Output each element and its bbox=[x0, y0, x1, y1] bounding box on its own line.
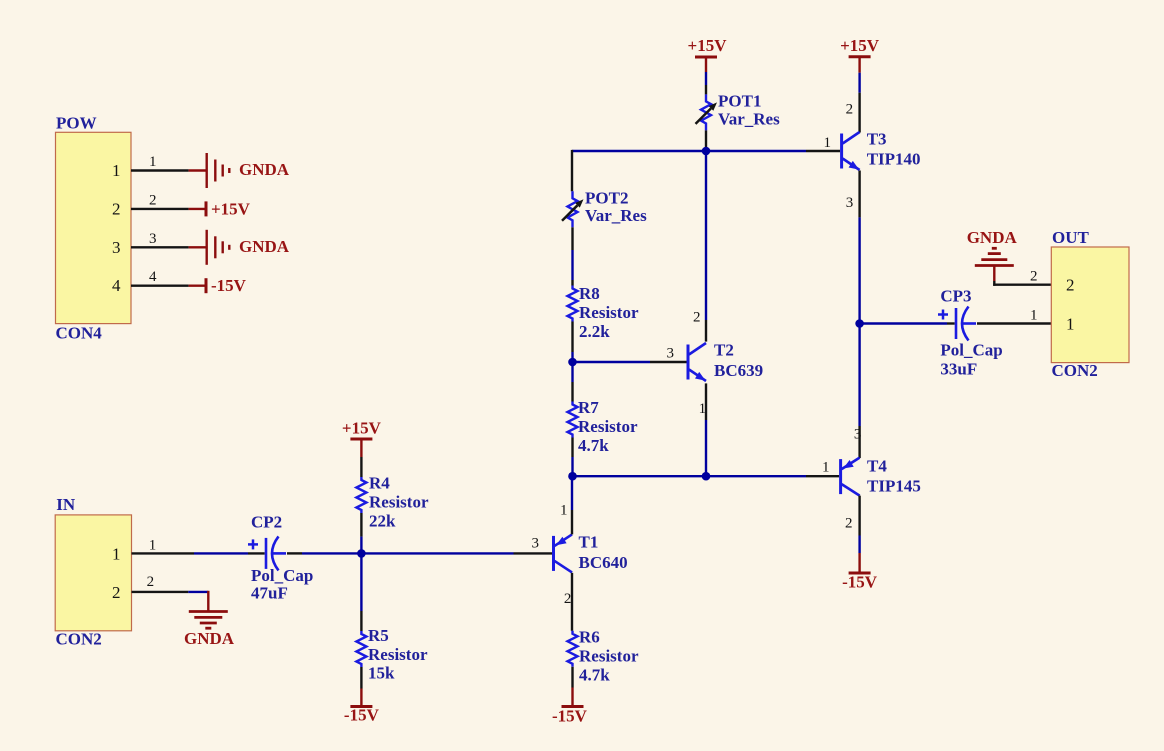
potentiometer POT2 (Var_Res) bbox=[562, 188, 647, 227]
transistor T2 pin 1 label bbox=[699, 401, 707, 417]
connector OUT pin 2 label bbox=[1030, 269, 1038, 285]
transistor T1 pin 1 label bbox=[560, 503, 568, 519]
resistor R4 (22k) bbox=[356, 474, 429, 531]
svg-text:R8: R8 bbox=[579, 284, 600, 303]
svg-text:Var_Res: Var_Res bbox=[585, 206, 647, 225]
wire CP3 to OUT pin1 bbox=[977, 322, 1051, 324]
transistor T4 pin 1 label bbox=[822, 459, 830, 475]
node A junction bbox=[357, 549, 366, 558]
svg-text:15k: 15k bbox=[368, 664, 395, 683]
wire POW pin4 to -15V bbox=[131, 285, 205, 287]
svg-text:2: 2 bbox=[112, 199, 121, 218]
wire GNDA to OUT pin2 bbox=[993, 266, 1051, 286]
svg-text:GNDA: GNDA bbox=[184, 629, 235, 648]
wire IN pin2 to GNDA bbox=[132, 591, 209, 612]
resistor R7 (4.7k) bbox=[568, 398, 638, 455]
transistor T4 pin 3 label bbox=[854, 427, 862, 443]
connector OUT pin 2 number inside bbox=[1066, 276, 1075, 295]
svg-text:1: 1 bbox=[560, 503, 568, 519]
svg-text:Resistor: Resistor bbox=[579, 646, 639, 665]
svg-text:CON4: CON4 bbox=[56, 324, 103, 343]
svg-text:CON2: CON2 bbox=[56, 629, 102, 648]
power +15V (R4) bbox=[342, 418, 382, 439]
svg-text:4.7k: 4.7k bbox=[579, 665, 610, 684]
svg-text:33uF: 33uF bbox=[940, 360, 977, 379]
wire T1 emitter up bbox=[571, 476, 573, 534]
svg-text:-15V: -15V bbox=[211, 276, 247, 295]
wire node A to R5 bbox=[360, 553, 362, 631]
svg-text:1: 1 bbox=[149, 537, 157, 553]
svg-text:CON2: CON2 bbox=[1052, 361, 1098, 380]
connector CON4 pin 2 number inside bbox=[112, 199, 121, 218]
connector CON4 pin 3 label bbox=[149, 231, 157, 247]
power +15V (POW pin2) bbox=[206, 199, 251, 218]
node D junction bbox=[702, 472, 711, 481]
wire R7 to node C bbox=[571, 438, 573, 477]
svg-text:Var_Res: Var_Res bbox=[718, 109, 780, 128]
ground GNDA (POW pin3) bbox=[207, 230, 290, 265]
connector IN pin 2 number inside bbox=[112, 583, 121, 602]
wire node E to CP3 bbox=[860, 322, 955, 324]
svg-text:+15V: +15V bbox=[688, 36, 728, 55]
wire R5 to -15V bbox=[360, 667, 362, 707]
svg-text:BC640: BC640 bbox=[579, 553, 628, 572]
power +15V (POT1) bbox=[688, 36, 728, 57]
svg-text:+15V: +15V bbox=[211, 199, 251, 218]
wire +15V to POT1 bbox=[705, 57, 707, 94]
node E junction bbox=[855, 319, 864, 328]
node B junction bbox=[568, 358, 577, 367]
svg-text:POT2: POT2 bbox=[585, 188, 628, 207]
connector IN pin 1 number inside bbox=[112, 544, 121, 563]
wire POW pin2 to +15V bbox=[131, 208, 205, 210]
resistor R5 (15k) bbox=[356, 626, 428, 683]
power -15V (R6) bbox=[552, 707, 588, 726]
svg-text:Pol_Cap: Pol_Cap bbox=[940, 340, 1002, 359]
svg-text:4.7k: 4.7k bbox=[578, 436, 609, 455]
svg-text:4: 4 bbox=[112, 276, 121, 295]
wire POW pin3 to GNDA bbox=[131, 246, 206, 248]
svg-text:2: 2 bbox=[846, 102, 854, 118]
connector CON4 pin 4 number inside bbox=[112, 276, 121, 295]
connector CON4 pin 1 label bbox=[149, 154, 157, 170]
svg-text:4: 4 bbox=[149, 269, 157, 285]
wire top corner down to POT2 bbox=[571, 150, 573, 191]
svg-text:CP3: CP3 bbox=[940, 287, 971, 306]
svg-text:T2: T2 bbox=[714, 340, 734, 359]
svg-text:R4: R4 bbox=[369, 474, 390, 493]
svg-text:3: 3 bbox=[667, 345, 675, 361]
wire T2 collector up bbox=[705, 151, 707, 342]
ground GNDA (OUT) bbox=[967, 228, 1018, 266]
svg-text:+15V: +15V bbox=[342, 418, 382, 437]
wire R4 to node A bbox=[360, 513, 362, 553]
transistor T1 pin 2 label bbox=[564, 591, 572, 607]
connector OUT pin 1 label bbox=[1030, 307, 1038, 323]
svg-text:TIP140: TIP140 bbox=[867, 150, 921, 169]
node top junction bbox=[702, 147, 711, 156]
connector CON4 pin 2 label bbox=[149, 192, 157, 208]
power -15V (POW pin4) bbox=[206, 276, 247, 295]
svg-text:3: 3 bbox=[846, 195, 854, 211]
svg-text:2: 2 bbox=[147, 574, 155, 590]
wire R8 to node B bbox=[571, 322, 573, 363]
connector IN pin 1 label bbox=[149, 537, 157, 553]
svg-text:BC639: BC639 bbox=[714, 361, 763, 380]
svg-text:3: 3 bbox=[149, 231, 157, 247]
svg-text:47uF: 47uF bbox=[251, 584, 288, 603]
svg-text:+15V: +15V bbox=[840, 36, 880, 55]
transistor T2 (BC639) bbox=[688, 340, 763, 381]
svg-text:Pol_Cap: Pol_Cap bbox=[251, 566, 313, 585]
svg-text:CP2: CP2 bbox=[251, 513, 282, 532]
svg-text:GNDA: GNDA bbox=[967, 228, 1018, 247]
svg-text:22k: 22k bbox=[369, 512, 396, 531]
resistor R8 (2.2k) bbox=[568, 284, 639, 341]
transistor T1 (BC640) bbox=[554, 532, 628, 572]
wire T1 collector to R6 bbox=[571, 573, 573, 631]
wire node B to R7 bbox=[571, 362, 573, 402]
svg-text:1: 1 bbox=[149, 154, 157, 170]
connector OUT pin 1 number inside bbox=[1066, 315, 1075, 334]
wire POT2 to R8 bbox=[571, 227, 573, 285]
transistor T2 pin 2 label bbox=[693, 310, 701, 326]
svg-text:2: 2 bbox=[693, 310, 701, 326]
svg-text:-15V: -15V bbox=[552, 707, 588, 726]
node C junction bbox=[568, 472, 577, 481]
svg-text:POT1: POT1 bbox=[718, 91, 761, 110]
power -15V (T4) bbox=[842, 573, 878, 592]
wire node E to T4 collector bbox=[858, 324, 860, 459]
svg-text:1: 1 bbox=[1030, 307, 1038, 323]
ground GNDA (IN pin2) bbox=[184, 612, 235, 649]
wire +15V to R4 bbox=[360, 439, 362, 477]
svg-text:3: 3 bbox=[112, 238, 121, 257]
wire mid horizontal bbox=[573, 475, 840, 477]
wire IN pin1 to CP2 bbox=[132, 552, 265, 554]
svg-text:Resistor: Resistor bbox=[368, 645, 428, 664]
svg-text:Resistor: Resistor bbox=[579, 303, 639, 322]
transistor T4 pin 2 label bbox=[845, 516, 853, 532]
transistor T1 pin 3 label bbox=[532, 535, 540, 551]
svg-text:2: 2 bbox=[564, 591, 572, 607]
svg-text:T1: T1 bbox=[579, 532, 599, 551]
svg-text:OUT: OUT bbox=[1052, 228, 1090, 247]
svg-text:IN: IN bbox=[56, 495, 76, 514]
wire POW pin1 to GNDA bbox=[131, 169, 206, 171]
connector CON4 pin 3 number inside bbox=[112, 238, 121, 257]
potentiometer POT1 (Var_Res) bbox=[696, 91, 781, 130]
svg-text:1: 1 bbox=[822, 459, 830, 475]
wire T3 emitter to node E bbox=[858, 171, 860, 324]
svg-text:2: 2 bbox=[845, 516, 853, 532]
svg-text:2: 2 bbox=[1066, 276, 1075, 295]
svg-text:1: 1 bbox=[1066, 315, 1075, 334]
connector CON2 (IN) body bbox=[55, 495, 131, 649]
transistor T4 (TIP145) bbox=[841, 456, 921, 495]
svg-text:GNDA: GNDA bbox=[239, 237, 290, 256]
transistor T3 (TIP140) bbox=[842, 130, 921, 170]
capacitor CP2 (Pol_Cap 47uF) bbox=[248, 513, 313, 603]
svg-text:-15V: -15V bbox=[842, 573, 878, 592]
wire T2 emitter down bbox=[705, 383, 707, 476]
svg-text:2: 2 bbox=[1030, 269, 1038, 285]
svg-text:POW: POW bbox=[56, 113, 97, 132]
wire CP2 to node A bbox=[287, 552, 552, 554]
svg-text:R7: R7 bbox=[578, 398, 599, 417]
svg-text:1: 1 bbox=[824, 135, 832, 151]
svg-text:1: 1 bbox=[112, 161, 121, 180]
power +15V (T3) bbox=[840, 36, 880, 57]
capacitor CP3 (Pol_Cap 33uF) bbox=[938, 287, 1003, 379]
svg-text:R5: R5 bbox=[368, 626, 389, 645]
resistor R6 (4.7k) bbox=[568, 627, 639, 684]
svg-text:Resistor: Resistor bbox=[369, 493, 429, 512]
svg-text:1: 1 bbox=[112, 544, 121, 563]
transistor T3 pin 3 label bbox=[846, 195, 854, 211]
connector CON4 (POW) body bbox=[56, 113, 132, 342]
connector CON2 (OUT) body bbox=[1051, 228, 1129, 380]
transistor T3 pin 2 label bbox=[846, 102, 854, 118]
svg-text:2.2k: 2.2k bbox=[579, 322, 610, 341]
svg-text:T4: T4 bbox=[867, 456, 887, 475]
connector CON4 pin 1 number inside bbox=[112, 161, 121, 180]
svg-text:3: 3 bbox=[854, 427, 862, 443]
svg-text:R6: R6 bbox=[579, 627, 600, 646]
ground GNDA (POW pin1) bbox=[207, 153, 290, 188]
transistor T2 pin 3 label bbox=[667, 345, 675, 361]
svg-text:Resistor: Resistor bbox=[578, 417, 638, 436]
transistor T3 pin 1 label bbox=[824, 135, 832, 151]
wire node B to T2 base bbox=[573, 361, 687, 363]
svg-text:-15V: -15V bbox=[344, 706, 380, 725]
svg-text:T3: T3 bbox=[867, 130, 887, 149]
connector CON4 pin 4 label bbox=[149, 269, 157, 285]
wire POT1 to top node bbox=[705, 130, 707, 151]
connector IN pin 2 label bbox=[147, 574, 155, 590]
svg-text:TIP145: TIP145 bbox=[867, 476, 921, 495]
wire R6 to -15V bbox=[571, 667, 573, 707]
power -15V (R5) bbox=[344, 706, 380, 725]
svg-text:GNDA: GNDA bbox=[239, 160, 290, 179]
svg-text:3: 3 bbox=[532, 535, 540, 551]
wire +15V to T3 collector bbox=[858, 57, 860, 133]
wire T4 emitter to -15V bbox=[858, 496, 860, 573]
svg-text:2: 2 bbox=[149, 192, 157, 208]
svg-text:2: 2 bbox=[112, 583, 121, 602]
wire top horizontal bbox=[572, 150, 840, 152]
